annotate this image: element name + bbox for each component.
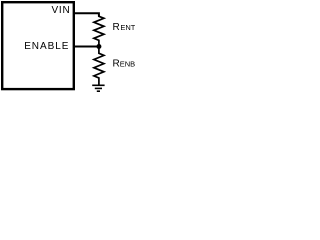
svg-text:ENABLE: ENABLE — [24, 41, 69, 52]
resistor R_ENB — [94, 47, 104, 86]
node junction dot — [96, 44, 101, 49]
ground — [92, 85, 104, 91]
resistor R_ENT — [94, 15, 104, 47]
svg-text:RENT: RENT — [113, 22, 136, 33]
svg-text:VIN: VIN — [52, 5, 71, 16]
IC outline U1 — [2, 2, 74, 89]
svg-text:RENB: RENB — [113, 58, 136, 69]
wire ENABLE pin to node — [73, 45, 99, 47]
wire VIN pin to R_ENT top — [73, 13, 99, 16]
